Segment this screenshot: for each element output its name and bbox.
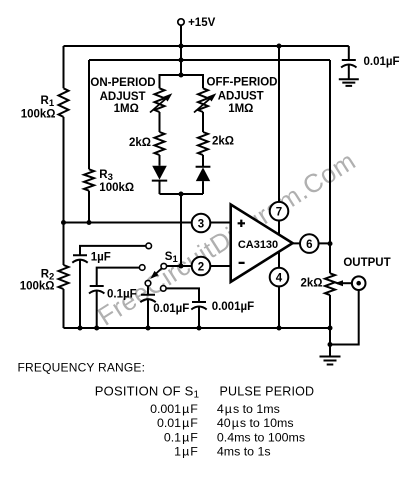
svg-text:100kΩ: 100kΩ bbox=[21, 108, 56, 120]
svg-text:1µF: 1µF bbox=[174, 445, 198, 459]
svg-text:0.001µF: 0.001µF bbox=[150, 402, 198, 416]
svg-text:FREQUENCY RANGE:: FREQUENCY RANGE: bbox=[18, 360, 146, 374]
svg-text:POSITION OF S1: POSITION OF S1 bbox=[95, 384, 200, 401]
svg-text:1µF: 1µF bbox=[91, 252, 111, 264]
svg-text:100kΩ: 100kΩ bbox=[20, 281, 55, 293]
svg-text:100kΩ: 100kΩ bbox=[99, 182, 134, 194]
svg-text:0.4ms to 100ms: 0.4ms to 100ms bbox=[217, 430, 305, 444]
svg-text:40µs to 10ms: 40µs to 10ms bbox=[217, 416, 294, 430]
svg-text:R1: R1 bbox=[41, 95, 55, 109]
svg-text:OUTPUT: OUTPUT bbox=[343, 257, 390, 269]
svg-text:2kΩ: 2kΩ bbox=[300, 277, 322, 289]
svg-text:0.1µF: 0.1µF bbox=[164, 430, 198, 444]
svg-text:0.01µF: 0.01µF bbox=[153, 303, 189, 315]
svg-text:3: 3 bbox=[198, 218, 204, 230]
svg-text:4µs to 1ms: 4µs to 1ms bbox=[217, 402, 280, 416]
svg-text:0.001µF: 0.001µF bbox=[212, 301, 254, 313]
svg-text:0.01µF: 0.01µF bbox=[364, 56, 400, 68]
svg-text:2: 2 bbox=[198, 261, 204, 273]
svg-text:4: 4 bbox=[276, 272, 283, 284]
svg-text:7: 7 bbox=[276, 207, 282, 219]
svg-text:ADJUST: ADJUST bbox=[100, 91, 146, 103]
svg-text:2kΩ: 2kΩ bbox=[129, 137, 151, 149]
svg-text:1MΩ: 1MΩ bbox=[114, 103, 139, 115]
svg-text:0.01µF: 0.01µF bbox=[157, 416, 198, 430]
svg-text:2kΩ: 2kΩ bbox=[212, 136, 234, 148]
svg-text:+15V: +15V bbox=[188, 17, 216, 29]
svg-text:R3: R3 bbox=[99, 169, 113, 183]
svg-text:0.1µF: 0.1µF bbox=[107, 288, 137, 300]
svg-text:CA3130: CA3130 bbox=[238, 239, 278, 251]
svg-text:OFF-PERIOD: OFF-PERIOD bbox=[207, 76, 278, 88]
svg-text:ADJUST: ADJUST bbox=[218, 90, 264, 102]
svg-text:PULSE PERIOD: PULSE PERIOD bbox=[220, 385, 315, 399]
svg-text:4ms to 1s: 4ms to 1s bbox=[217, 445, 271, 459]
svg-text:S1: S1 bbox=[165, 251, 179, 265]
svg-text:ON-PERIOD: ON-PERIOD bbox=[90, 77, 155, 89]
svg-text:1MΩ: 1MΩ bbox=[228, 103, 253, 115]
svg-text:6: 6 bbox=[306, 239, 312, 251]
